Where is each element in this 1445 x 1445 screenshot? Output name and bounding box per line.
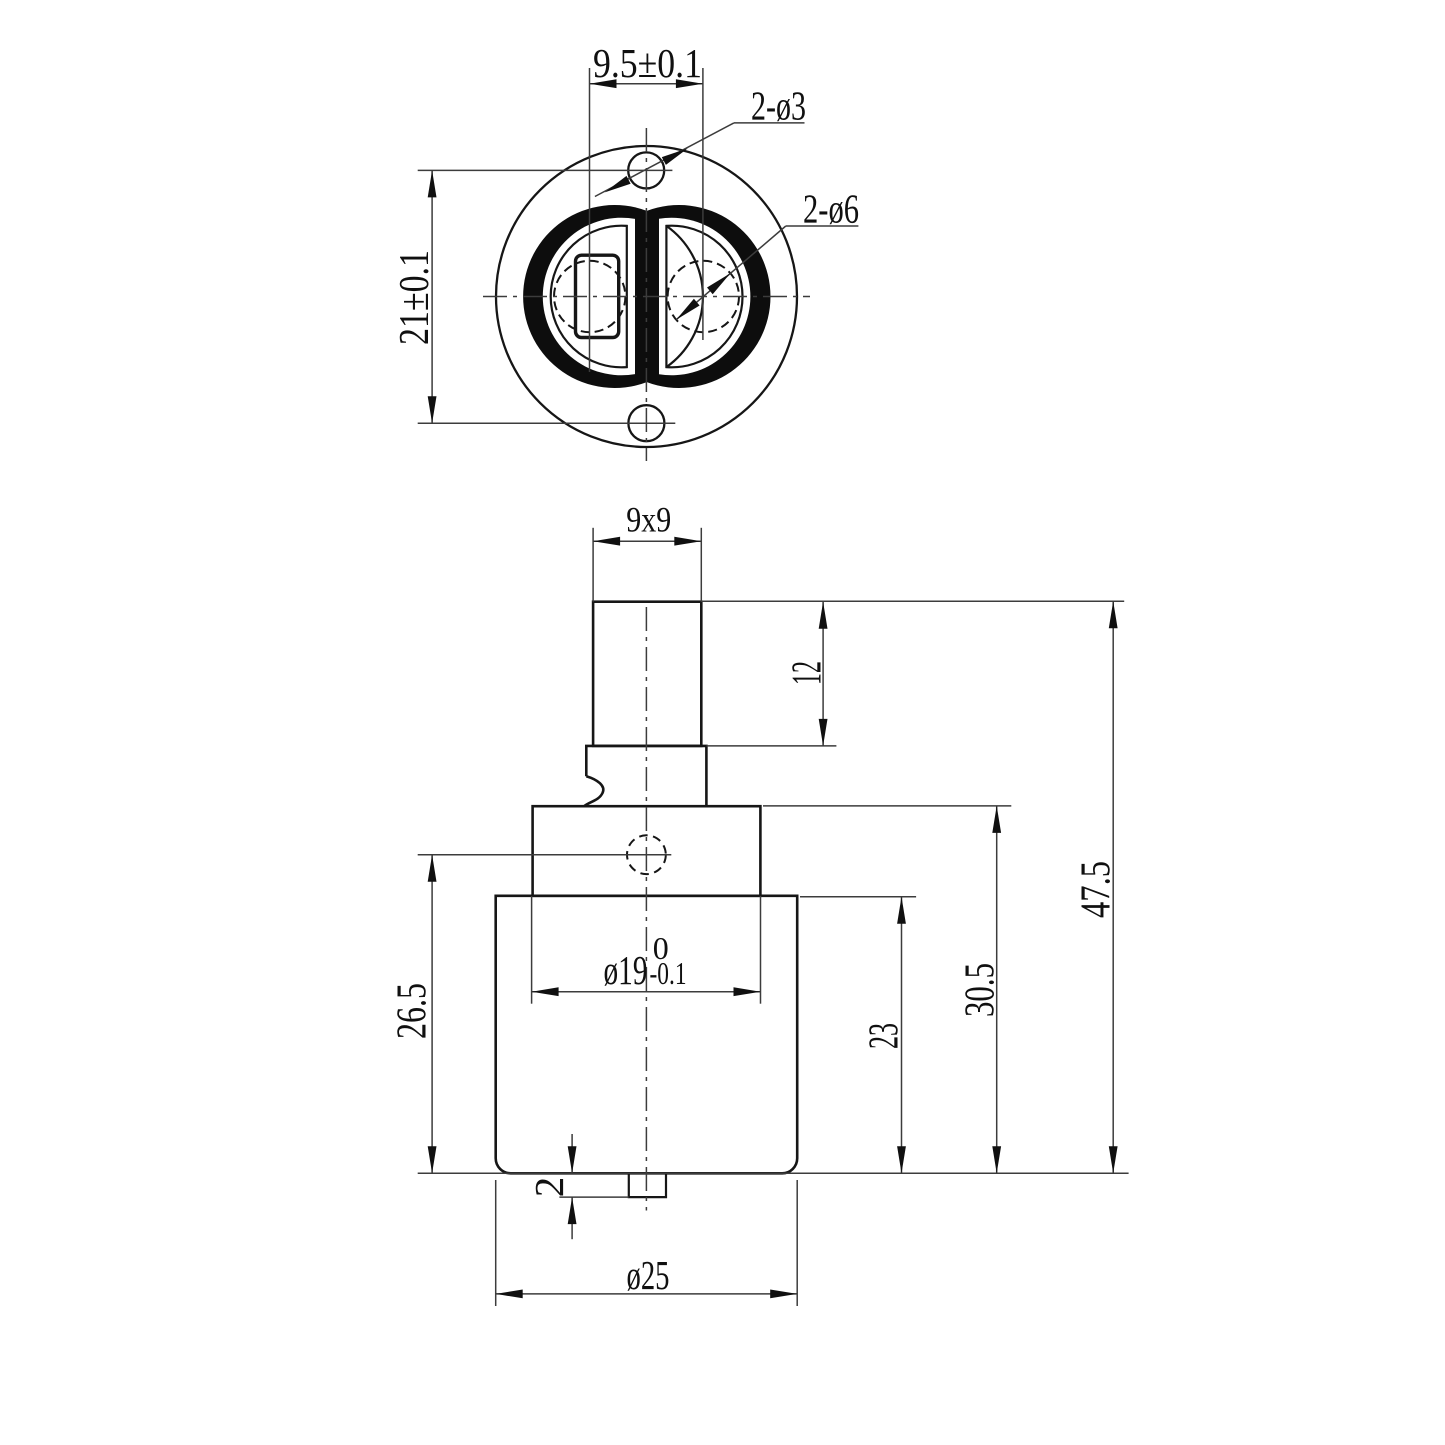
right D chamber thin outline <box>666 226 742 368</box>
right D chamber white cutout <box>659 218 750 376</box>
svg-text:26.5: 26.5 <box>390 983 436 1039</box>
svg-text:2: 2 <box>526 1177 572 1198</box>
leader 2-o3 to mounting holes <box>595 123 734 197</box>
dimension 26.5 <box>431 855 433 1174</box>
extension line stem top (47.5 / 12) <box>701 600 1124 602</box>
upper body cylinder o19 <box>533 806 761 896</box>
svg-text:-0.1: -0.1 <box>650 955 687 991</box>
horizontal centerline top view <box>483 296 810 298</box>
svg-text:12: 12 <box>785 661 831 685</box>
dimension 9x9 <box>592 528 594 602</box>
lower body cylinder o25 <box>496 896 798 1174</box>
extension line stem bottom (12) <box>706 745 836 747</box>
svg-text:30.5: 30.5 <box>958 963 1004 1017</box>
bottom reference line <box>418 1172 1129 1174</box>
vertical centerline side view <box>645 607 647 1211</box>
hidden port circle o6 left (dashed) <box>554 261 625 332</box>
dimension 2 (nub) <box>559 1196 628 1198</box>
left D chamber white cutout <box>543 218 635 376</box>
mounting hole o3 bottom <box>628 405 664 441</box>
svg-text:21±0.1: 21±0.1 <box>392 250 438 345</box>
bottom nub <box>629 1173 666 1197</box>
dimension 23 <box>901 897 903 1174</box>
right port centerline / extension line <box>702 68 704 340</box>
svg-text:47.5: 47.5 <box>1074 861 1120 918</box>
square broach slot in left chamber <box>576 255 619 337</box>
svg-text:2-ø3: 2-ø3 <box>751 83 806 129</box>
hidden port circle o6 right (dashed) <box>668 261 739 332</box>
svg-text:9x9: 9x9 <box>626 500 671 540</box>
hidden side hole o3 (dashed circle) <box>627 835 666 874</box>
stem adapter collar with relief notch <box>586 746 706 806</box>
dimension 30.5 <box>996 806 998 1173</box>
svg-text:2-ø6: 2-ø6 <box>803 186 859 232</box>
dimension 21±0.1 <box>418 169 673 171</box>
left port centerline / extension line <box>589 68 591 372</box>
svg-text:ø25: ø25 <box>627 1252 670 1298</box>
dimension o25 <box>495 1180 497 1306</box>
svg-text:9.5±0.1: 9.5±0.1 <box>593 40 702 86</box>
dimension 9.5±0.1 <box>590 83 703 85</box>
seal gasket (thick black double-D ring) <box>523 205 770 388</box>
dimension 12 <box>822 602 824 746</box>
svg-text:23: 23 <box>862 1023 908 1049</box>
left D chamber thin outline <box>551 226 627 368</box>
svg-text:ø19: ø19 <box>604 947 648 993</box>
dimension 47.5 <box>1112 601 1114 1173</box>
extension line lower body top (23) <box>800 896 916 898</box>
valve opening crescent arc in right chamber <box>666 226 703 367</box>
extension line upper body top (30.5) <box>763 805 1011 807</box>
dimension o19 with tolerance <box>531 896 533 1004</box>
extension line through side hole (26.5) <box>418 854 672 856</box>
leader 2-o6 to port holes <box>676 226 786 320</box>
vertical centerline top view <box>645 128 647 461</box>
top view: cartridge flange outer circle o25 <box>496 146 797 447</box>
mounting hole o3 top <box>628 152 664 188</box>
side view: square stem 9x9 <box>593 602 701 746</box>
